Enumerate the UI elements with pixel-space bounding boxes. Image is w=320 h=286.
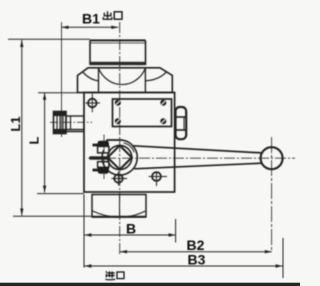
top hex nut (78, 68, 173, 93)
outlet port (90, 40, 146, 65)
left fitting neck (54, 116, 84, 132)
pivot circle (108, 145, 132, 169)
svg-text:L: L (27, 136, 42, 144)
svg-text:B1: B1 (82, 10, 100, 26)
pivot cap (107, 140, 121, 145)
label 进口 (inlet) (105, 271, 124, 280)
handle ball (261, 147, 283, 169)
plate screw 2 (160, 100, 166, 106)
dim L top extension (38, 92, 84, 94)
plate screw 1 (115, 100, 121, 106)
left fitting head (54, 112, 67, 134)
side lug (176, 107, 187, 139)
fitting horizontal centerline (50, 121, 92, 123)
clamp bracket lower (98, 162, 109, 168)
main vertical centerline (119, 22, 121, 255)
clamp bracket bolt top (98, 141, 109, 147)
bolt hole bottom-right (149, 172, 168, 186)
svg-text:B3: B3 (188, 252, 206, 268)
bracket centerline (103, 135, 105, 182)
plate screw 3 (115, 118, 121, 124)
cover plate (113, 99, 172, 127)
ball vertical centerline (271, 137, 273, 250)
dim B right extension (175, 219, 177, 243)
svg-text:B2: B2 (187, 237, 205, 253)
pivot hub arc (102, 140, 137, 175)
svg-text:B: B (126, 220, 136, 236)
hub inner arc (124, 143, 135, 152)
fitting vertical centerline / B1 left extension (61, 22, 63, 137)
dim B3 (84, 264, 282, 267)
bracket bolt stub bottom (93, 169, 98, 172)
clamp bracket upper (98, 146, 109, 153)
dim B left extension (83, 195, 85, 268)
handle arm (134, 146, 262, 169)
dim L1 (20, 40, 23, 216)
label 出口 (outlet) (103, 11, 122, 19)
bolt hole top-left (86, 94, 101, 113)
dim B1 (62, 26, 119, 29)
valve body (84, 93, 175, 193)
dim B3 right extension (282, 238, 284, 278)
plate screw 4 (160, 118, 166, 124)
pin end circle (112, 172, 128, 186)
clamp bracket bolt bottom (98, 167, 109, 173)
inlet hex nut (92, 195, 146, 218)
dim L1 bottom extension (13, 215, 92, 217)
scan bottom border (0, 283, 300, 286)
dim L bottom extension (37, 193, 84, 195)
svg-text:L1: L1 (8, 116, 23, 131)
dim B (84, 233, 175, 236)
diamond (108, 145, 132, 169)
pivot pin (90, 156, 111, 159)
dim B2 (120, 250, 272, 253)
handle horizontal centerline (88, 157, 295, 159)
dim L (43, 93, 46, 193)
dim: top extension line (8, 38, 90, 40)
bracket bolt stub top (93, 144, 98, 147)
